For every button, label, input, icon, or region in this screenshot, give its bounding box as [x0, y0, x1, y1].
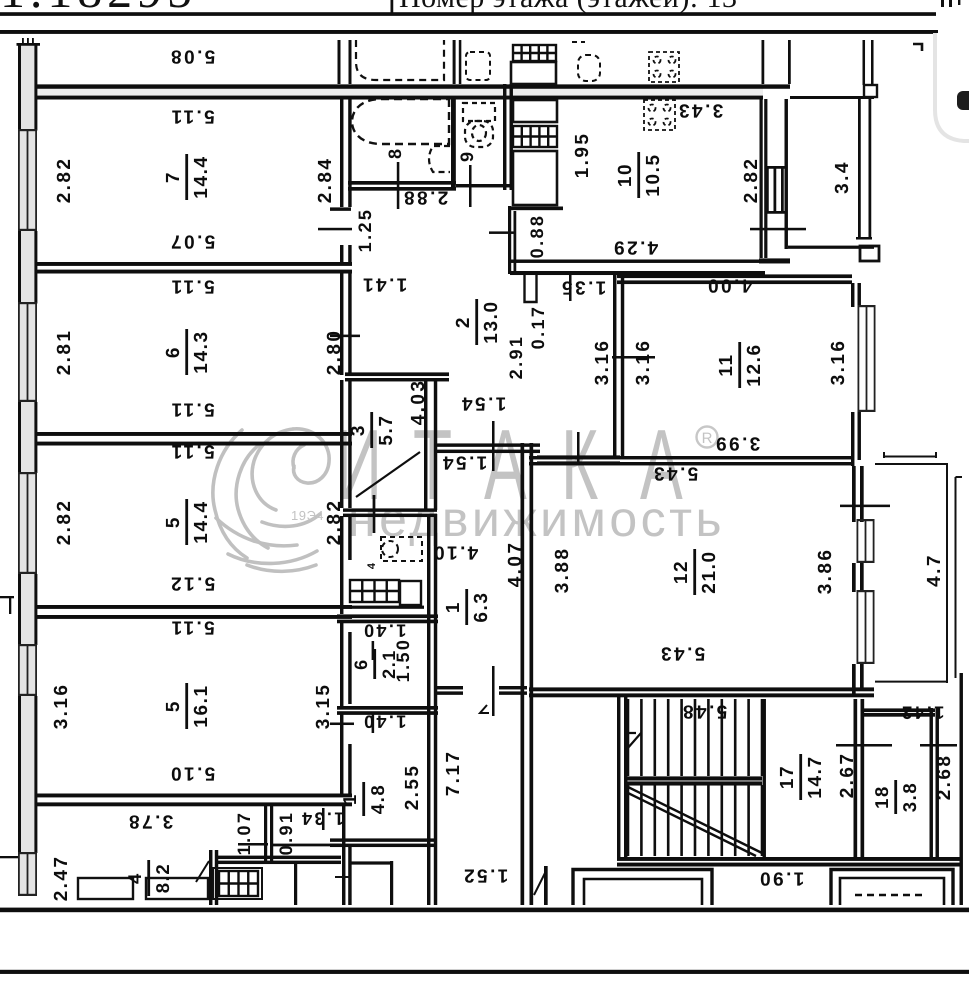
vent hatch bottom unit — [219, 871, 258, 896]
wall x294 bottom unit — [294, 862, 297, 905]
room 11 east wall upper — [851, 283, 854, 307]
bottom band under stairs/17/18 — [617, 857, 960, 861]
room 11 west wall — [613, 275, 616, 457]
svg-text:R: R — [702, 430, 713, 447]
svg-text:11: 11 — [716, 353, 737, 376]
room 4 divider walls interior — [209, 850, 212, 905]
storeroom north wall — [337, 614, 438, 618]
kitchen/balcony window — [766, 168, 769, 213]
room 12 east wall mid — [852, 563, 856, 592]
north wall light core — [37, 84, 763, 99]
svg-text:1.52: 1.52 — [462, 865, 509, 886]
upper unit toilet dashed — [572, 42, 600, 81]
svg-text:3.15: 3.15 — [313, 683, 334, 730]
svg-text:1: 1 — [443, 601, 464, 613]
svg-text:5: 5 — [163, 700, 184, 712]
svg-text:0.88: 0.88 — [527, 214, 547, 259]
svg-text:5: 5 — [163, 516, 184, 528]
svg-text:12: 12 — [671, 560, 692, 584]
tick 3.16 — [612, 356, 655, 359]
corridor wall seg room7 — [340, 99, 343, 207]
svg-text:4.8: 4.8 — [367, 784, 388, 815]
kitchen south wall — [510, 260, 765, 263]
svg-text:5.10: 5.10 — [169, 763, 216, 784]
wall rooms 5(16.1)/4 — [37, 794, 352, 798]
header line 1 — [0, 12, 936, 16]
svg-text:недвижимость: недвижимость — [348, 491, 723, 547]
room 17 label — [777, 754, 826, 800]
elevator B outer — [831, 870, 953, 906]
room 12 west wall / corridor wall — [521, 443, 525, 905]
room 3 label — [348, 412, 397, 448]
vent column rect upper (in unit above) — [511, 62, 556, 84]
window W5 room 4 west — [18, 852, 20, 896]
corner mark top right of plan — [913, 44, 922, 51]
tick 1.40 bottom — [372, 714, 375, 733]
svg-text:1.54: 1.54 — [441, 452, 488, 473]
svg-text:1.90: 1.90 — [758, 868, 805, 889]
svg-text:2.88: 2.88 — [402, 187, 449, 208]
tick 5.43/3.86 — [840, 505, 890, 508]
tick 2.68 — [920, 744, 957, 747]
room 10 label — [615, 152, 664, 198]
svg-text:5.11: 5.11 — [169, 106, 215, 127]
svg-text:2.67: 2.67 — [837, 752, 858, 799]
door frame tick room3 — [373, 495, 376, 533]
UI overlay top right — [935, 33, 969, 141]
closet 4(B) dashed with circle — [381, 537, 422, 561]
window W2 room 6 west — [18, 302, 20, 402]
svg-text:16.1: 16.1 — [191, 684, 212, 727]
stair arrow — [627, 733, 641, 749]
watermark (R) — [697, 427, 718, 448]
corridor wall left of elevators — [544, 866, 548, 905]
corridor wall upper above north wall — [338, 40, 341, 84]
window room 11 east — [858, 305, 860, 412]
outer wall west light core — [18, 43, 37, 896]
vent rect B — [513, 151, 557, 205]
door tick room1 — [492, 666, 495, 716]
svg-text:5.12: 5.12 — [169, 573, 216, 594]
stairwell west wall — [617, 697, 620, 857]
svg-text:3.16: 3.16 — [633, 339, 654, 386]
svg-text:7.17: 7.17 — [443, 750, 464, 797]
corridor wall seg room7 lower — [340, 245, 343, 262]
svg-text:1.25: 1.25 — [355, 208, 375, 253]
svg-text:4.10: 4.10 — [432, 542, 479, 563]
tick 2.82 balcony — [750, 228, 806, 231]
svg-text:3.4: 3.4 — [832, 160, 853, 194]
door diagonal room4 — [196, 861, 209, 882]
tick 1.07/0.91 — [238, 843, 268, 846]
corridor wall seg below room3 — [340, 516, 343, 560]
north wall continuation over balcony col — [763, 84, 790, 88]
header line 2 — [0, 30, 938, 34]
tub room 8 dashed — [352, 99, 449, 144]
room 12 south wall / stair north wall — [529, 687, 874, 691]
outer east wall lower — [960, 673, 963, 905]
outer wall north line A — [37, 84, 763, 88]
svg-text:5.11: 5.11 — [169, 441, 215, 462]
bottom unit window blocks — [78, 878, 133, 899]
svg-text:0.91: 0.91 — [276, 811, 296, 856]
svg-text:2.82: 2.82 — [324, 499, 345, 546]
svg-text:6: 6 — [163, 346, 184, 358]
wc 9 east wall — [503, 84, 506, 190]
svg-text:5.08: 5.08 — [169, 46, 216, 67]
svg-text:2.68: 2.68 — [934, 754, 955, 801]
room 12 north wall — [529, 456, 852, 459]
small vert stub — [390, 861, 393, 905]
vent south line — [340, 606, 424, 609]
svg-text:2.82: 2.82 — [54, 499, 75, 546]
balcony 3.4 window bottom cap — [856, 237, 872, 240]
toilet room 9 dashed — [463, 103, 495, 147]
svg-text:9: 9 — [457, 152, 477, 162]
balcony 3.4 north wall — [790, 96, 874, 99]
vent hatch kitchen — [513, 126, 557, 147]
tiny marks top right edge — [941, 0, 944, 7]
room 5 label — [163, 499, 212, 545]
kitchen stove dashed — [644, 100, 675, 130]
balcony left wall — [785, 99, 788, 249]
window room 7 west — [18, 129, 20, 231]
svg-text:17: 17 — [777, 765, 798, 789]
kitchen SE corner band — [759, 258, 790, 263]
balcony 3.4 east window lines — [858, 99, 861, 237]
svg-text:12.6: 12.6 — [744, 343, 765, 386]
room 18 east wall — [930, 708, 933, 857]
svg-text:3: 3 — [348, 424, 369, 436]
outer wall west segment 5 — [18, 696, 21, 853]
svg-text:8: 8 — [385, 149, 405, 159]
wall hatch ticks at top edge — [22, 38, 24, 43]
wall rooms 7/6 — [37, 262, 352, 266]
partition y861 segs — [351, 861, 390, 864]
room 17/18 wall — [854, 699, 858, 857]
tick 1.35 — [569, 274, 572, 301]
kitchen east wall — [760, 99, 763, 258]
stair treads lower flight — [628, 785, 762, 856]
room 8 south wall — [348, 181, 456, 185]
svg-text:2.84: 2.84 — [315, 157, 336, 204]
room 3 south wall — [343, 508, 437, 511]
room 8 sink dashed — [429, 146, 450, 172]
wall band y857 bottom left unit — [216, 856, 341, 859]
elevator B dashed door — [855, 894, 924, 896]
corridor wall seg vent area — [340, 560, 343, 614]
svg-text:1.35: 1.35 — [560, 277, 607, 298]
stair treads upper flight — [628, 699, 762, 776]
svg-text:5.43: 5.43 — [659, 643, 706, 664]
svg-text:14.7: 14.7 — [805, 755, 826, 798]
vent hatch upper unit — [513, 45, 556, 61]
room 7 label — [163, 154, 212, 200]
svg-text:6.3: 6.3 — [471, 591, 492, 622]
hall wall above room3 / 2.80 tick — [330, 335, 360, 338]
wall rooms 5/5(16.1) — [37, 605, 352, 609]
room 3 west wall — [340, 380, 343, 508]
corridor wall seg bottom unit — [342, 806, 345, 905]
small walls right of 0.91 — [270, 844, 341, 847]
svg-text:2.55: 2.55 — [402, 764, 423, 811]
room 11 label — [716, 342, 765, 388]
outer wall west segment 2 — [18, 231, 21, 304]
svg-text:3.43: 3.43 — [677, 100, 724, 121]
svg-text:1.54: 1.54 — [460, 393, 507, 414]
bottom-left inner partition below hall — [330, 838, 435, 841]
balcony 4.7 outline — [875, 452, 962, 683]
balcony pillar top right — [864, 85, 877, 97]
wall 8/9 — [451, 99, 456, 190]
footer line 1 (plan crop line) — [0, 908, 969, 913]
room 12 label — [671, 549, 720, 595]
door arrow room1 — [480, 705, 489, 713]
room 11 east wall lower — [851, 412, 854, 466]
svg-text:1.95: 1.95 — [572, 132, 593, 179]
svg-text:3.16: 3.16 — [828, 339, 849, 386]
outer wall west segment 3 — [18, 402, 21, 473]
storeroom west wall — [340, 621, 343, 706]
tick crossing corridor wall y723 — [330, 723, 354, 726]
room 1 south wall segs — [437, 686, 463, 689]
svg-text:4: 4 — [124, 872, 145, 884]
window room 12 east B — [857, 590, 859, 664]
svg-text:1.40: 1.40 — [362, 621, 407, 641]
vent rect A — [513, 100, 557, 122]
window W3 room 5 west — [18, 472, 20, 574]
svg-text:2.91: 2.91 — [506, 335, 526, 380]
svg-text:7: 7 — [163, 171, 184, 183]
room 4 label — [124, 860, 173, 896]
tick 1.34 — [322, 808, 325, 830]
watermark ITAKA text — [336, 409, 683, 521]
svg-text:3.99: 3.99 — [714, 433, 761, 454]
tick 3.88 — [577, 432, 580, 462]
wall rooms 6/5 — [37, 432, 352, 436]
svg-text:5.11: 5.11 — [169, 617, 215, 638]
svg-text:5.48: 5.48 — [681, 701, 728, 722]
svg-text:3.78: 3.78 — [127, 811, 174, 832]
svg-text:2.82: 2.82 — [741, 157, 762, 204]
svg-text:2.47: 2.47 — [51, 855, 72, 902]
svg-text:3.16: 3.16 — [51, 683, 72, 730]
svg-text:1.41: 1.41 — [361, 274, 408, 295]
storeroom south wall — [337, 706, 438, 710]
svg-text:5.7: 5.7 — [376, 414, 397, 445]
svg-text:8.2: 8.2 — [152, 863, 173, 894]
exterior dim tick 2.47 — [0, 856, 18, 858]
room 12 east wall upper — [852, 466, 856, 522]
overlay dark dot — [957, 91, 969, 110]
vent block south wall — [508, 207, 563, 211]
svg-text:5.11: 5.11 — [169, 399, 215, 420]
svg-text:13.0: 13.0 — [481, 300, 502, 343]
svg-text:4: 4 — [366, 562, 378, 569]
svg-text:14.4: 14.4 — [191, 500, 212, 543]
svg-text:19Э4: 19Э4 — [291, 508, 324, 523]
balcony 3.4 south wall — [788, 246, 874, 249]
wc south wall — [456, 184, 513, 187]
vent outline bottom unit — [213, 868, 262, 899]
window room 12 east A — [857, 519, 859, 563]
tick 0.88 — [489, 231, 514, 234]
corridor wall seg below storeroom — [340, 714, 343, 795]
vent corridor rect — [400, 581, 421, 605]
svg-text:3.86: 3.86 — [815, 548, 836, 595]
stair diagonal direction lines — [626, 786, 762, 853]
hall 2 label — [453, 299, 502, 345]
room 3 door diagonal — [356, 452, 420, 497]
svg-text:10.5: 10.5 — [643, 153, 664, 196]
window W4 room 5-16.1 west — [18, 644, 20, 696]
svg-text:2.80: 2.80 — [324, 329, 345, 376]
svg-text:4.00: 4.00 — [706, 275, 753, 296]
outer wall north line B — [37, 96, 763, 100]
room 3 east wall — [424, 380, 427, 510]
svg-text:4.29: 4.29 — [612, 237, 659, 258]
room 11 north wall — [617, 274, 852, 278]
svg-text:1.07: 1.07 — [234, 811, 254, 856]
balcony outer wall stubs above — [863, 40, 866, 85]
hall south wall west part (1.54 door) — [437, 443, 540, 446]
svg-text:1.40: 1.40 — [362, 712, 407, 732]
walls above north wall at balcony col — [762, 40, 765, 84]
vent corridor hatch — [350, 580, 399, 602]
room 3 north wall — [345, 372, 449, 376]
tick 1.40 top — [372, 641, 375, 660]
room 6 label — [163, 329, 212, 375]
room 1 label — [443, 589, 492, 625]
svg-text:14.4: 14.4 — [191, 155, 212, 198]
room 1(6.3) west wall — [427, 514, 430, 905]
room 18 north wall — [861, 708, 935, 712]
room 18 label — [871, 780, 920, 814]
room 4.8 label — [339, 782, 388, 816]
svg-text:18: 18 — [871, 785, 892, 809]
hall corner walls near 1.25 — [330, 207, 351, 210]
svg-text:Номер этажа (этажей): 13: Номер этажа (этажей): 13 — [399, 0, 737, 14]
svg-text:3.8: 3.8 — [899, 782, 920, 813]
elevator A outer — [573, 870, 712, 906]
storeroom label — [351, 649, 399, 679]
stair east wall — [763, 699, 766, 857]
tick 2.67 — [836, 744, 892, 747]
svg-text:0.17: 0.17 — [528, 305, 548, 350]
fixtures above north wall: tub dashed upper unit — [356, 40, 444, 80]
elevator A inner — [584, 879, 702, 905]
svg-text:4.7: 4.7 — [924, 553, 945, 587]
tick 1.25 — [318, 228, 352, 231]
svg-text:5.11: 5.11 — [169, 276, 215, 297]
svg-text:2: 2 — [453, 316, 474, 328]
room 12 east wall lower — [852, 664, 856, 697]
tick 1.54 — [492, 421, 495, 471]
svg-text:10: 10 — [615, 163, 636, 187]
pilaster 0.17 stub — [525, 274, 537, 302]
stair landing double line — [627, 776, 762, 780]
corridor wall seg room6 — [340, 273, 343, 375]
svg-text:2.81: 2.81 — [54, 329, 75, 376]
svg-text:21.0: 21.0 — [699, 550, 720, 593]
kitchen west wall lower — [508, 206, 511, 274]
svg-text:1.50: 1.50 — [393, 638, 413, 683]
svg-text:5.07: 5.07 — [169, 231, 216, 252]
fixture marks bottom center — [335, 877, 350, 899]
hall south wall east part — [537, 455, 620, 458]
svg-text:1.34: 1.34 — [300, 809, 345, 829]
svg-text:14.3: 14.3 — [191, 330, 212, 373]
svg-text:4.07: 4.07 — [505, 541, 526, 588]
door swing corridor bottom — [534, 871, 546, 895]
upper unit sink dashed — [466, 52, 490, 80]
upper unit wall stub — [453, 40, 456, 84]
upper unit stove dashed — [649, 52, 679, 82]
svg-text:5.43: 5.43 — [652, 463, 699, 484]
elevator B inner — [840, 878, 944, 905]
svg-text:1: 1 — [339, 793, 360, 805]
footer line 2 — [0, 970, 969, 974]
junction block below balcony 3.4 — [860, 246, 879, 261]
outer wall west: top cap — [17, 43, 41, 46]
svg-text:1.42: 1.42 — [900, 703, 945, 723]
svg-text:4.03: 4.03 — [408, 379, 429, 426]
header table vertical divider — [391, 0, 394, 13]
svg-text:3.88: 3.88 — [552, 547, 573, 594]
tick 9 — [469, 165, 472, 207]
svg-text:2.82: 2.82 — [54, 157, 75, 204]
watermark Itaka wave logo — [213, 429, 329, 572]
svg-text:3.16: 3.16 — [592, 339, 613, 386]
svg-text:6: 6 — [351, 658, 371, 670]
exterior dim tick at 3.16/5 boundary — [0, 596, 14, 598]
outer wall west segment 1 — [18, 43, 21, 131]
outer wall west segment 4 — [18, 574, 21, 645]
wall x264 bottom unit — [264, 806, 267, 862]
tick 2.88 — [397, 162, 400, 209]
room 5 (16.1) label — [163, 683, 212, 729]
